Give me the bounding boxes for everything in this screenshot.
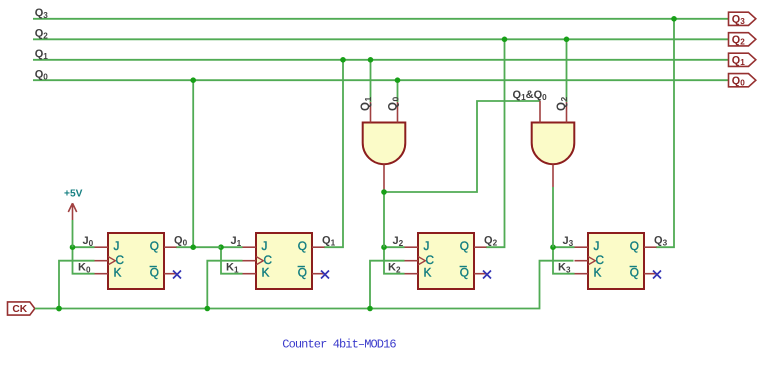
svg-text:Q1: Q1 [322,235,336,248]
no-connect U4 Qbar [653,271,661,279]
svg-text:Counter 4bit–MOD16: Counter 4bit–MOD16 [282,338,396,352]
svg-text:Q3: Q3 [35,7,49,20]
wire clock riser FF2 [207,261,242,309]
wire J2/K2 feed FF3 [384,246,405,248]
wire J1/K1 feed FF2 [221,246,243,248]
junction Q3 bus tap [671,16,677,22]
junction J input junction FF2 [218,244,224,250]
pin J pin U3 [405,246,419,248]
junction Q2 bus tap [502,37,508,43]
wire Q0 to U5 [397,80,399,102]
JK flip-flop U3 [418,233,474,289]
global label Q2 output [729,33,756,47]
wire Q0 to FF2 [193,246,221,248]
global label Q3 output [729,12,756,26]
wire clock riser FF3 [370,261,405,309]
junction J input junction FF3 [381,244,387,250]
pin J pin U1 [95,246,109,248]
wire Q1 riser to bus [324,60,343,247]
pin C pin U4 [575,260,589,262]
wire K1 drop FF2 [221,247,243,274]
svg-text:J0: J0 [83,235,94,248]
svg-text:Q: Q [298,265,307,279]
pin K pin U4 [575,273,589,275]
pin Q pin U4 [644,246,657,248]
wire Q3 riser to bus [656,19,674,247]
junction Q2 tap U6 [564,37,570,43]
JK flip-flop U4 [588,233,644,289]
svg-text:K2: K2 [388,262,401,275]
global label CK input [8,302,35,315]
pin Qbar pin U3 [474,273,487,275]
pin K pin U2 [243,273,257,275]
svg-text:Q: Q [150,239,159,253]
pin C pin U3 [405,260,419,262]
svg-text:K: K [424,265,432,279]
wire Q1&Q0 to U6 [384,101,540,192]
wire Q0 bus [33,79,729,81]
svg-text:Q1: Q1 [360,96,373,111]
power +5V [64,189,83,221]
svg-text:K3: K3 [558,262,571,275]
svg-text:+5V: +5V [64,189,83,200]
junction J input junction FF4 [550,244,556,250]
pin U5 output [383,165,385,191]
wire K2 drop FF3 [384,247,405,274]
pin Qbar pin U1 [164,273,177,275]
pin U6 output [552,165,554,188]
svg-text:Q0: Q0 [35,69,49,82]
pin J pin U4 [575,246,589,248]
pin J pin U2 [243,246,257,248]
junction Q0 tap U5 [395,77,401,83]
junction CK junction FF1 [56,306,62,312]
no-connect U3 Qbar [483,271,491,279]
svg-text:Q2: Q2 [556,96,569,111]
AND gate U5 [363,123,406,165]
AND gate U6 [532,123,575,165]
wire Q1 to U5 [370,60,372,102]
svg-text:CK: CK [12,304,27,315]
junction Q0 branch [190,244,196,250]
wire Q2 bus [33,38,729,40]
svg-text:K0: K0 [78,262,91,275]
svg-text:Q0: Q0 [388,96,401,111]
pin U5 input B [397,102,399,123]
svg-text:Q: Q [460,239,469,253]
pin U6 input A [539,101,541,123]
svg-text:J: J [424,239,430,253]
svg-text:Q3: Q3 [654,235,668,248]
wire J3/K3 feed FF4 [553,246,575,248]
junction CK tap FF2 [205,306,211,312]
wire clock riser FF1 [59,261,95,309]
svg-text:J: J [114,239,120,253]
wire Q3 bus [33,18,729,20]
junction CK tap FF3 [367,306,373,312]
pin Q pin U1 [164,246,177,248]
svg-text:Q: Q [630,239,639,253]
wire +5V to J0 [72,220,74,247]
svg-text:J3: J3 [563,235,574,248]
svg-text:Q: Q [150,265,159,279]
global label Q0 output [729,74,756,88]
JK flip-flop U1 [108,233,164,289]
JK flip-flop U2 [256,233,312,289]
svg-text:K1: K1 [226,262,239,275]
svg-text:Q2: Q2 [484,235,498,248]
wire Q2 riser to bus [486,39,505,247]
wire Q2 to U6 [566,39,568,102]
svg-text:J2: J2 [393,235,404,248]
svg-text:K: K [594,265,602,279]
svg-text:Q2: Q2 [35,28,49,41]
no-connect U2 Qbar [321,271,329,279]
pin K pin U1 [95,273,109,275]
pin Qbar pin U4 [644,273,657,275]
wire K3 drop FF4 [553,247,575,274]
svg-text:Q: Q [630,265,639,279]
svg-text:Q: Q [298,239,307,253]
junction U5 out junction [381,189,387,195]
pin C pin U2 [243,260,257,262]
junction CK tap FF1 [56,306,62,312]
wire J0/K0 feed FF1 [73,246,95,248]
pin Qbar pin U2 [312,273,325,275]
junction J input junction FF1 [70,244,76,250]
svg-text:Q1: Q1 [35,48,49,61]
wire U6 out to FF4 [552,187,554,247]
pin U6 input B [566,102,568,123]
svg-text:J: J [262,239,268,253]
svg-text:J: J [594,239,600,253]
pin U5 input A [370,102,372,123]
pin Q pin U2 [312,246,325,248]
svg-text:Q1&Q0: Q1&Q0 [513,89,548,102]
global label Q1 output [729,53,756,67]
junction Q1 bus tap [340,57,346,63]
svg-text:Q: Q [460,265,469,279]
junction Q1 tap U5 [368,57,374,63]
pin K pin U3 [405,273,419,275]
wire Q0 riser to bus [176,80,193,247]
svg-text:K: K [114,265,122,279]
pin Q pin U3 [474,246,487,248]
svg-text:K: K [262,265,270,279]
wire Q1&Q0 to FF3 [383,191,385,248]
svg-text:Q0: Q0 [174,235,188,248]
svg-text:J1: J1 [231,235,242,248]
wire Q1 bus [33,59,729,61]
junction Q0 bus tap [190,77,196,83]
pin C pin U1 [95,260,109,262]
wire K0 drop FF1 [73,247,95,274]
wire CK net [35,261,574,309]
no-connect U1 Qbar [173,271,181,279]
